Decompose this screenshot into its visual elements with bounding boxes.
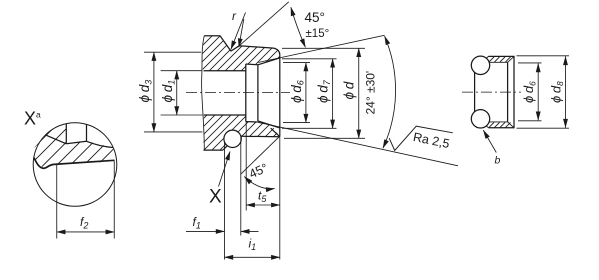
svg-text:f2: f2 bbox=[80, 215, 88, 231]
svg-text:i1: i1 bbox=[249, 237, 257, 253]
24deg dimension arc bbox=[383, 36, 396, 148]
detail chamfer top line bbox=[46, 135, 67, 144]
extension vertical t5 left bbox=[245, 122, 247, 211]
dimension phi d8 bbox=[517, 56, 570, 128]
detail groove left wall bbox=[65, 124, 67, 144]
leader r bbox=[231, 13, 246, 50]
hatching upper band of housing bbox=[165, 30, 322, 75]
24deg cone lower extension line bbox=[258, 122, 458, 166]
svg-text:ϕ d: ϕ d bbox=[342, 81, 357, 99]
label phi d6 main bbox=[289, 80, 306, 103]
label Ra 2,5 bbox=[412, 130, 451, 151]
surface finish symbol Ra 2,5 bbox=[389, 126, 453, 150]
label phi d8 bbox=[549, 81, 566, 103]
svg-text:f1: f1 bbox=[193, 215, 201, 231]
boss bump bottom edge bbox=[204, 149, 224, 151]
label phi d1 bbox=[160, 80, 177, 103]
mouth chamfer 45deg bbox=[271, 128, 280, 137]
svg-text:24° ±30': 24° ±30' bbox=[364, 71, 378, 115]
right view top chamfer strip bbox=[482, 56, 515, 62]
svg-text:45°: 45° bbox=[247, 161, 270, 181]
counterbore top edge bbox=[246, 63, 258, 66]
svg-text:r: r bbox=[232, 9, 237, 23]
cone upper line bbox=[258, 58, 280, 65]
dimension t5 bbox=[246, 204, 280, 206]
svg-text:ϕ d8: ϕ d8 bbox=[549, 81, 566, 103]
right view seal ring top bbox=[471, 56, 489, 74]
svg-text:Xa: Xa bbox=[24, 109, 41, 129]
svg-text:45°: 45° bbox=[305, 10, 325, 25]
45deg lower dimension arc bbox=[244, 177, 274, 189]
seal groove slope bbox=[223, 143, 230, 150]
detail hatching bbox=[0, 116, 160, 172]
extension vertical f1 left / i1 left bbox=[224, 141, 226, 260]
label 45deg lower bbox=[247, 161, 270, 181]
svg-text:X: X bbox=[209, 187, 222, 208]
detail circle X bbox=[33, 123, 117, 207]
right view inner vertical bbox=[507, 62, 509, 122]
24deg cone upper extension line bbox=[258, 35, 385, 62]
right end face bbox=[279, 55, 281, 137]
extension vertical f1 right bbox=[240, 137, 242, 236]
detail sealing edge thick line bbox=[34, 158, 115, 169]
bottom outer edge bbox=[241, 135, 280, 137]
extension vertical right face bbox=[279, 137, 281, 260]
svg-text:Ra 2,5: Ra 2,5 bbox=[412, 130, 451, 151]
detail surface right bbox=[87, 141, 114, 147]
svg-text:b: b bbox=[495, 155, 501, 167]
profile sealing ring bbox=[224, 130, 241, 147]
svg-text:ϕ d6: ϕ d6 bbox=[289, 80, 306, 103]
leader b bbox=[483, 130, 496, 152]
45deg lower chamfer extension line bbox=[241, 137, 280, 175]
svg-text:±15°: ±15° bbox=[306, 28, 330, 40]
leader X bbox=[219, 152, 231, 187]
dimension phi d6 right view bbox=[518, 63, 542, 121]
label phi d6 right bbox=[521, 81, 538, 103]
label 24deg pm30min bbox=[364, 71, 378, 115]
centerline main view bbox=[186, 92, 290, 94]
break line wavy bbox=[202, 36, 205, 150]
dimension phi d bbox=[282, 48, 365, 138]
housing outline: boss bump top bbox=[204, 35, 220, 37]
right view left connector bbox=[474, 72, 476, 113]
label phi d3 bbox=[137, 80, 154, 103]
detail groove bottom bbox=[66, 141, 86, 144]
counterbore bottom edge bbox=[246, 121, 258, 123]
label phi d bbox=[342, 81, 357, 99]
label phi d7 bbox=[316, 79, 333, 103]
cone small end vertical bbox=[257, 65, 259, 121]
rounded top mouth corner bbox=[274, 48, 280, 55]
dimension phi d3 bbox=[144, 52, 203, 132]
right view body outline bbox=[489, 56, 515, 127]
dimension phi d6 main bbox=[283, 63, 310, 123]
svg-text:t5: t5 bbox=[258, 189, 267, 205]
cone lower line bbox=[258, 121, 280, 128]
bore top edge bbox=[204, 70, 246, 72]
dimension i1 bbox=[225, 256, 280, 258]
step face vertical bbox=[245, 64, 247, 122]
right view bottom chamfer strip bbox=[482, 122, 515, 128]
top thread surface bbox=[231, 46, 274, 51]
svg-text:ϕ d6: ϕ d6 bbox=[521, 81, 538, 103]
svg-text:ϕ d1: ϕ d1 bbox=[160, 80, 177, 103]
45deg chamfer extension line bbox=[239, 2, 289, 46]
svg-text:ϕ d7: ϕ d7 bbox=[316, 79, 333, 103]
svg-text:ϕ d3: ϕ d3 bbox=[137, 80, 154, 103]
dimension phi d7 bbox=[282, 59, 337, 129]
bore bottom edge bbox=[204, 114, 246, 116]
right view seal ring bottom bbox=[471, 110, 489, 128]
chamfer notch slope bbox=[220, 36, 231, 51]
detail groove right wall bbox=[86, 124, 88, 141]
dimension f2 bbox=[57, 161, 115, 239]
45deg dimension arc bbox=[291, 7, 306, 47]
dimension f1 bbox=[186, 230, 259, 232]
right view centerline bbox=[462, 91, 521, 93]
dimension phi d1 bbox=[161, 71, 203, 115]
hatching lower band of housing bbox=[167, 110, 316, 155]
